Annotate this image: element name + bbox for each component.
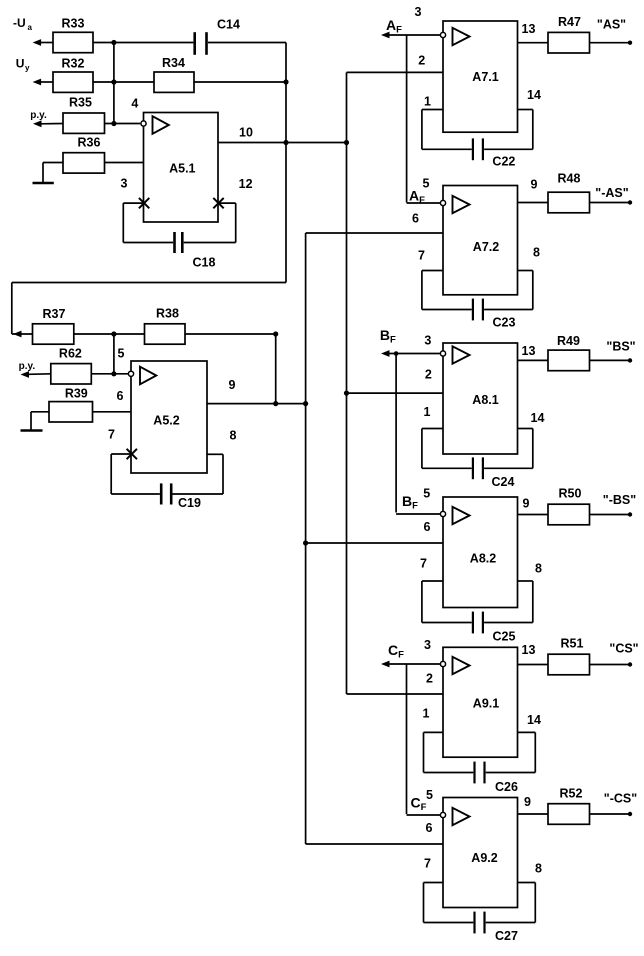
svg-text:2: 2 xyxy=(418,53,425,67)
net "AS" output label xyxy=(597,18,626,32)
svg-text:9: 9 xyxy=(531,178,538,192)
net AF input of A7.1 xyxy=(381,17,440,38)
svg-text:F: F xyxy=(412,501,418,512)
svg-text:R62: R62 xyxy=(59,347,82,361)
resistor R52 xyxy=(518,787,629,825)
svg-text:a: a xyxy=(28,23,33,32)
wire right vertical bus x286 xyxy=(285,43,287,283)
svg-text:y: y xyxy=(25,64,30,73)
junction bus/R32 xyxy=(111,79,116,84)
wire A5.1 output pin10 xyxy=(218,142,347,144)
capacitor C25 xyxy=(422,581,533,644)
svg-text:"CS": "CS" xyxy=(609,642,638,656)
junction BF node xyxy=(394,351,399,356)
wire AF vertical link xyxy=(406,35,408,203)
net -Uo label xyxy=(13,16,33,32)
resistor R47 xyxy=(518,15,629,53)
resistor R37 xyxy=(12,307,114,344)
wire R38 leg down xyxy=(275,334,277,404)
wire second input of A9.1 xyxy=(347,693,444,695)
svg-text:6: 6 xyxy=(426,821,433,835)
junction bus2/A8.1 input xyxy=(344,391,349,396)
pin 6 label of A8.2 xyxy=(424,520,431,534)
svg-text:10: 10 xyxy=(239,125,253,139)
net BF label at A8.2 xyxy=(402,493,418,512)
svg-text:A5.1: A5.1 xyxy=(169,162,195,176)
resistor R34 xyxy=(114,56,286,92)
pin 4 label xyxy=(131,97,138,111)
svg-text:6: 6 xyxy=(117,389,124,403)
pin 6 label xyxy=(117,389,124,403)
pin 6 label of A9.2 xyxy=(426,821,433,835)
resistor R33 xyxy=(33,17,114,53)
pin 13 label of A8.1 xyxy=(522,344,536,358)
svg-text:3: 3 xyxy=(424,333,431,347)
wire BF vertical link xyxy=(395,354,397,513)
svg-text:14: 14 xyxy=(531,411,545,425)
op-amp A7.2 xyxy=(440,186,517,295)
svg-text:F: F xyxy=(419,195,425,206)
wire corner into A7.2 xyxy=(407,202,440,204)
svg-text:5: 5 xyxy=(426,788,433,802)
svg-text:R47: R47 xyxy=(558,15,581,29)
wire second input of A9.2 xyxy=(306,843,443,845)
svg-text:C14: C14 xyxy=(217,18,240,32)
svg-text:3: 3 xyxy=(415,5,422,19)
svg-text:6: 6 xyxy=(412,212,419,226)
net "-AS" output label xyxy=(595,186,628,200)
svg-text:p.y.: p.y. xyxy=(19,361,36,372)
svg-text:A: A xyxy=(409,188,419,204)
svg-text:"-AS": "-AS" xyxy=(595,186,628,200)
wire bus2 from A5.1 out xyxy=(346,72,348,694)
pin 8 label of A9.2 xyxy=(535,862,542,876)
wire second input of A7.1 xyxy=(347,71,444,73)
svg-text:R32: R32 xyxy=(62,57,85,71)
svg-text:12: 12 xyxy=(239,177,253,191)
pin 7 label xyxy=(108,428,115,442)
resistor R50 xyxy=(518,487,629,525)
svg-text:B: B xyxy=(380,327,390,343)
pin 8 label of A7.2 xyxy=(533,246,540,260)
pin 1 label of A9.1 xyxy=(423,707,430,721)
pin 2 label of A7.1 xyxy=(418,53,425,67)
svg-text:R37: R37 xyxy=(43,307,66,321)
wire feedback to A5.2 xyxy=(12,283,286,335)
svg-text:A8.1: A8.1 xyxy=(472,393,498,407)
net AF label at A7.2 xyxy=(409,188,425,207)
capacitor C24 xyxy=(422,429,533,490)
resistor R39 xyxy=(31,387,131,423)
op-amp A5.2 xyxy=(128,361,207,473)
pin 14 label of A7.1 xyxy=(527,88,541,102)
node output end dot A9.2 xyxy=(628,812,632,816)
node output end dot A8.2 xyxy=(628,512,632,516)
wire corner into A9.2 xyxy=(407,814,441,816)
net "CS" output label xyxy=(609,642,638,656)
junction out/R38leg xyxy=(273,401,278,406)
junction bus3/A8.2 input xyxy=(303,540,308,545)
op-amp A8.1 xyxy=(440,343,517,454)
pin 13 label of A7.1 xyxy=(522,22,536,36)
svg-text:7: 7 xyxy=(424,857,431,871)
net Uy label xyxy=(16,57,30,73)
svg-text:"-BS": "-BS" xyxy=(603,493,636,507)
svg-text:A7.1: A7.1 xyxy=(472,70,498,84)
svg-text:14: 14 xyxy=(527,713,541,727)
net p.y. upper label xyxy=(30,110,47,121)
svg-text:A5.2: A5.2 xyxy=(153,414,179,428)
svg-text:A9.1: A9.1 xyxy=(473,697,499,711)
pin 2 label of A8.1 xyxy=(425,367,432,381)
junction output/bus2 xyxy=(344,140,349,145)
net "-CS" output label xyxy=(604,792,637,806)
svg-text:R38: R38 xyxy=(156,307,179,321)
junction bus/R62/A5.2 input xyxy=(111,371,116,376)
svg-text:A: A xyxy=(386,17,396,33)
op-amp A9.2 xyxy=(440,798,517,908)
pin 7 label of A7.2 xyxy=(418,249,425,263)
svg-text:R51: R51 xyxy=(561,637,584,651)
pin 5 label of A9.2 xyxy=(426,788,433,802)
node output end dot A7.2 xyxy=(628,200,632,204)
net CF input of A9.1 xyxy=(381,642,440,667)
node output end dot A7.1 xyxy=(628,41,632,45)
svg-text:13: 13 xyxy=(522,344,536,358)
net "BS" output label xyxy=(606,340,635,354)
svg-text:C: C xyxy=(411,795,421,811)
junction bus/R35/A5.1 input xyxy=(111,121,116,126)
wire second input of A8.2 xyxy=(306,542,443,544)
pin 3 label xyxy=(121,177,128,191)
ground G2 xyxy=(21,412,43,431)
pin 2 label of A9.1 xyxy=(426,672,433,686)
junction R34/right bus xyxy=(283,79,288,84)
svg-text:C18: C18 xyxy=(193,256,216,270)
pin 1 label of A7.1 xyxy=(424,95,431,109)
svg-text:"AS": "AS" xyxy=(597,18,626,32)
pin 14 label of A9.1 xyxy=(527,713,541,727)
resistor R48 xyxy=(518,172,629,213)
node output end dot A8.1 xyxy=(628,358,632,362)
svg-text:9: 9 xyxy=(524,795,531,809)
svg-text:4: 4 xyxy=(131,97,138,111)
svg-text:5: 5 xyxy=(118,347,125,361)
pin 9 label xyxy=(229,378,236,392)
svg-text:R36: R36 xyxy=(78,135,101,149)
crossed pin 12 of A5.1 xyxy=(213,198,223,208)
junction R37/R38 bus xyxy=(111,331,116,336)
resistor R36 xyxy=(43,135,144,173)
resistor R38 xyxy=(114,307,276,345)
svg-text:2: 2 xyxy=(425,367,432,381)
svg-text:14: 14 xyxy=(527,88,541,102)
svg-text:13: 13 xyxy=(522,643,536,657)
op-amp A9.1 xyxy=(440,647,517,757)
svg-text:F: F xyxy=(398,650,404,661)
pin 3 label of A8.1 xyxy=(424,333,431,347)
svg-text:1: 1 xyxy=(424,95,431,109)
svg-text:A7.2: A7.2 xyxy=(473,240,499,254)
wire bus-B vertical xyxy=(113,334,115,374)
pin 8 label of A5.2 xyxy=(230,429,237,443)
svg-text:A8.2: A8.2 xyxy=(470,552,496,566)
svg-text:R39: R39 xyxy=(65,387,88,401)
svg-text:B: B xyxy=(402,493,412,509)
pin 13 label of A9.1 xyxy=(522,643,536,657)
svg-text:5: 5 xyxy=(423,487,430,501)
wire second input of A7.2 xyxy=(306,232,443,234)
svg-text:p.y.: p.y. xyxy=(30,110,47,121)
svg-text:R33: R33 xyxy=(62,17,85,31)
svg-text:U: U xyxy=(16,57,25,71)
svg-text:C23: C23 xyxy=(493,316,516,330)
svg-text:C: C xyxy=(388,642,398,658)
svg-text:8: 8 xyxy=(533,246,540,260)
svg-text:6: 6 xyxy=(424,520,431,534)
pin 7 label of A9.2 xyxy=(424,857,431,871)
capacitor C23 xyxy=(422,271,533,330)
wire A5.2 output pin9 xyxy=(207,403,306,405)
crossed pin 7 of A5.2 xyxy=(127,449,137,459)
svg-text:3: 3 xyxy=(121,177,128,191)
capacitor C26 xyxy=(424,732,536,794)
svg-text:9: 9 xyxy=(229,378,236,392)
capacitor C27 xyxy=(424,883,536,944)
pin 3 label of A9.1 xyxy=(424,638,431,652)
pin 5 label of A7.2 xyxy=(423,177,430,191)
net "-BS" output label xyxy=(603,493,636,507)
svg-text:R50: R50 xyxy=(559,487,582,501)
svg-text:F: F xyxy=(396,25,402,36)
node output end dot A9.1 xyxy=(628,662,632,666)
junction bus/R33 xyxy=(111,40,116,45)
op-amp A7.1 xyxy=(440,21,517,132)
wire CF vertical link xyxy=(406,664,408,814)
resistor R35 xyxy=(33,95,140,133)
svg-text:9: 9 xyxy=(523,497,530,511)
svg-text:C27: C27 xyxy=(495,929,518,943)
svg-text:C22: C22 xyxy=(492,155,515,169)
svg-text:8: 8 xyxy=(230,429,237,443)
pin 7 label of A8.2 xyxy=(420,557,427,571)
resistor R49 xyxy=(518,334,629,371)
capacitor C22 xyxy=(422,110,533,169)
junction out/bus3 xyxy=(303,401,308,406)
svg-text:3: 3 xyxy=(424,638,431,652)
svg-text:1: 1 xyxy=(424,405,431,419)
wire bus3 from A5.2 out xyxy=(305,233,307,844)
crossed pin 3 of A5.1 xyxy=(139,198,149,208)
wire corner into A8.2 xyxy=(396,513,440,515)
svg-text:-U: -U xyxy=(13,16,26,30)
net CF label at A9.2 xyxy=(411,795,427,814)
resistor R32 xyxy=(33,57,114,93)
pin 3 label of A7.1 xyxy=(415,5,422,19)
pin 8 label of A8.2 xyxy=(535,562,542,576)
svg-text:13: 13 xyxy=(522,22,536,36)
wire second input of A8.1 xyxy=(347,392,444,394)
svg-text:R34: R34 xyxy=(162,56,185,70)
svg-text:C24: C24 xyxy=(492,475,515,489)
svg-text:R52: R52 xyxy=(560,787,583,801)
svg-text:F: F xyxy=(390,334,396,345)
pin 5 label of A8.2 xyxy=(423,487,430,501)
svg-text:7: 7 xyxy=(108,428,115,442)
svg-text:A9.2: A9.2 xyxy=(471,851,497,865)
svg-text:7: 7 xyxy=(418,249,425,263)
pin 1 label of A8.1 xyxy=(424,405,431,419)
pin 9 label of A7.2 xyxy=(531,178,538,192)
junction output/right bus xyxy=(283,140,288,145)
capacitor C14 xyxy=(114,18,286,55)
resistor R62 xyxy=(21,347,129,385)
svg-text:"BS": "BS" xyxy=(606,340,635,354)
junction R38 corner xyxy=(273,331,278,336)
svg-text:1: 1 xyxy=(423,707,430,721)
svg-text:"-CS": "-CS" xyxy=(604,792,637,806)
pin 9 label of A9.2 xyxy=(524,795,531,809)
svg-text:R49: R49 xyxy=(557,334,580,348)
svg-text:8: 8 xyxy=(535,562,542,576)
op-amp A8.2 xyxy=(440,497,517,608)
net BF input of A8.1 xyxy=(380,327,440,357)
svg-text:R35: R35 xyxy=(69,95,92,109)
svg-text:C25: C25 xyxy=(493,630,516,644)
svg-text:C19: C19 xyxy=(178,496,201,510)
pin 14 label of A8.1 xyxy=(531,411,545,425)
svg-text:7: 7 xyxy=(420,557,427,571)
pin 5 label xyxy=(118,347,125,361)
resistor R51 xyxy=(518,637,629,675)
capacitor C19 xyxy=(111,454,223,510)
svg-text:5: 5 xyxy=(423,177,430,191)
svg-text:8: 8 xyxy=(535,862,542,876)
pin 6 label of A7.2 xyxy=(412,212,419,226)
svg-text:R48: R48 xyxy=(558,172,581,186)
wire bus-A left vertical xyxy=(113,43,115,124)
svg-text:F: F xyxy=(421,802,427,813)
pin 12 label xyxy=(239,177,253,191)
svg-text:2: 2 xyxy=(426,672,433,686)
pin 10 label xyxy=(239,125,253,139)
svg-text:C26: C26 xyxy=(495,780,518,794)
op-amp A5.1 xyxy=(141,113,218,223)
net p.y. lower label xyxy=(19,361,36,372)
pin 9 label of A8.2 xyxy=(523,497,530,511)
ground G1 xyxy=(33,163,54,184)
capacitor C18 xyxy=(123,203,235,269)
